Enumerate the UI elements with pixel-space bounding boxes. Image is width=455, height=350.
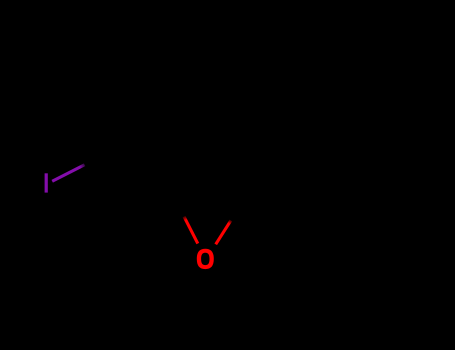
bond C3-O (right red half-bond of epoxide) [216, 220, 231, 244]
iodine label I [45, 173, 48, 192]
oxygen label O [197, 249, 214, 269]
bond C2-O (left red half-bond of epoxide) [184, 217, 198, 244]
bond I-CH2 (purple half-bond) [52, 165, 84, 182]
